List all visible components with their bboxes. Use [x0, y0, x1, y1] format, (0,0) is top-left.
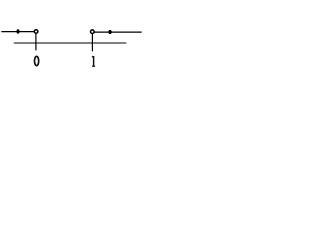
label 0 (drawn as narrow oval ring)	[35, 56, 39, 65]
left ray (x < 0)	[1, 31, 34, 33]
right ray (x > 1)	[94, 31, 141, 33]
open circle at 1	[91, 30, 95, 34]
tick / stem at 1	[91, 34, 93, 51]
number line	[14, 42, 127, 44]
tick / stem at 0	[35, 34, 37, 51]
open circle at 0	[34, 30, 38, 34]
number line diagram: solution set x<0 or x>1	[0, 0, 152, 86]
left arrowhead (teardrop: bulge + left point)	[15, 29, 19, 33]
label 1 (drawn: stem + top flag + base serif)	[92, 56, 95, 66]
right arrowhead (teardrop: bulge + right point)	[108, 30, 113, 34]
